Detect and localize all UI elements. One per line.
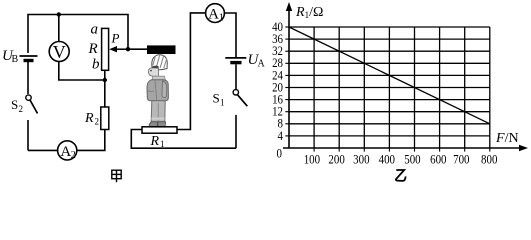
face [148, 68, 158, 77]
head bar (black slider bar) [147, 45, 176, 54]
svg-text:S: S [11, 97, 18, 112]
ammeter A2 [58, 141, 77, 160]
arm [162, 81, 167, 98]
pressure sensor R1 [142, 127, 177, 133]
wire: S1 to bottom rail [235, 115, 237, 148]
svg-text:2: 2 [95, 117, 100, 127]
shoes [149, 122, 157, 127]
svg-text:V: V [53, 42, 66, 62]
hat [152, 55, 168, 70]
battery UA [225, 58, 246, 63]
svg-text:R: R [150, 134, 160, 149]
y axis [288, 6, 290, 148]
svg-text:A: A [258, 59, 266, 70]
pants [151, 101, 165, 122]
wire: sensor right up to A1 [177, 13, 206, 130]
wire: sensor left to bottom rail [131, 130, 236, 149]
person standing on sensor [147, 55, 168, 127]
wire: left circuit bottom [28, 149, 58, 151]
grid [289, 27, 490, 148]
svg-text:500: 500 [404, 152, 420, 167]
svg-text:R: R [84, 111, 94, 126]
svg-text:800: 800 [481, 152, 497, 167]
svg-text:400: 400 [379, 152, 395, 167]
svg-text:0: 0 [277, 146, 282, 161]
battery UB [20, 53, 38, 61]
svg-text:A: A [60, 144, 71, 160]
grid top border (40 line) [289, 26, 490, 28]
label jia (甲) [112, 170, 121, 182]
svg-text:B: B [12, 54, 19, 65]
R1 vs F line [289, 27, 490, 124]
switch S1 [233, 90, 247, 107]
svg-text:4: 4 [278, 128, 283, 143]
svg-text:a: a [91, 22, 99, 38]
svg-text:2: 2 [19, 104, 24, 114]
ammeter A1 [206, 4, 225, 23]
wire: left circuit top [28, 15, 128, 151]
svg-text:600: 600 [430, 152, 446, 167]
x axis [283, 147, 524, 149]
wire: A2 to R2 branch [77, 130, 105, 151]
wire: battery to S1 [235, 64, 237, 90]
y axis tick marks [285, 27, 289, 136]
wire: A1 right down to battery [224, 13, 236, 57]
svg-text:300: 300 [353, 152, 369, 167]
hair [152, 66, 159, 69]
svg-text:2: 2 [71, 150, 76, 161]
wire: R2 top to pot bottom [104, 70, 106, 107]
svg-text:S: S [213, 91, 220, 106]
jacket [147, 80, 168, 101]
resistor R2 [101, 107, 109, 130]
wire: voltmeter branch top [58, 15, 60, 42]
wire: wiper to head bar [128, 48, 148, 50]
node junction dot wiper [126, 47, 130, 51]
node junction dot V-branch [57, 12, 61, 16]
wiper arrow P [109, 46, 128, 52]
svg-text:b: b [92, 57, 100, 73]
scarf collar [152, 76, 166, 80]
svg-text:P: P [111, 31, 120, 46]
svg-text:A: A [208, 7, 219, 23]
switch S2 [24, 94, 38, 120]
label yi (乙) [396, 170, 406, 181]
y tick labels [272, 19, 283, 143]
svg-text:1: 1 [220, 98, 225, 108]
wire: voltmeter branch bottom [59, 62, 105, 81]
node junction dot pot bottom [103, 78, 107, 82]
svg-text:R1/Ω: R1/Ω [295, 5, 323, 20]
voltmeter V [49, 42, 69, 62]
svg-text:200: 200 [328, 152, 344, 167]
svg-text:100: 100 [304, 152, 320, 167]
x tick labels [304, 152, 498, 167]
svg-text:R: R [88, 41, 98, 57]
svg-text:F/N: F/N [495, 131, 519, 146]
svg-text:700: 700 [453, 152, 469, 167]
svg-text:1: 1 [219, 12, 224, 23]
x axis tick marks [314, 148, 490, 152]
potentiometer R (slide rheostat body) [102, 28, 109, 70]
